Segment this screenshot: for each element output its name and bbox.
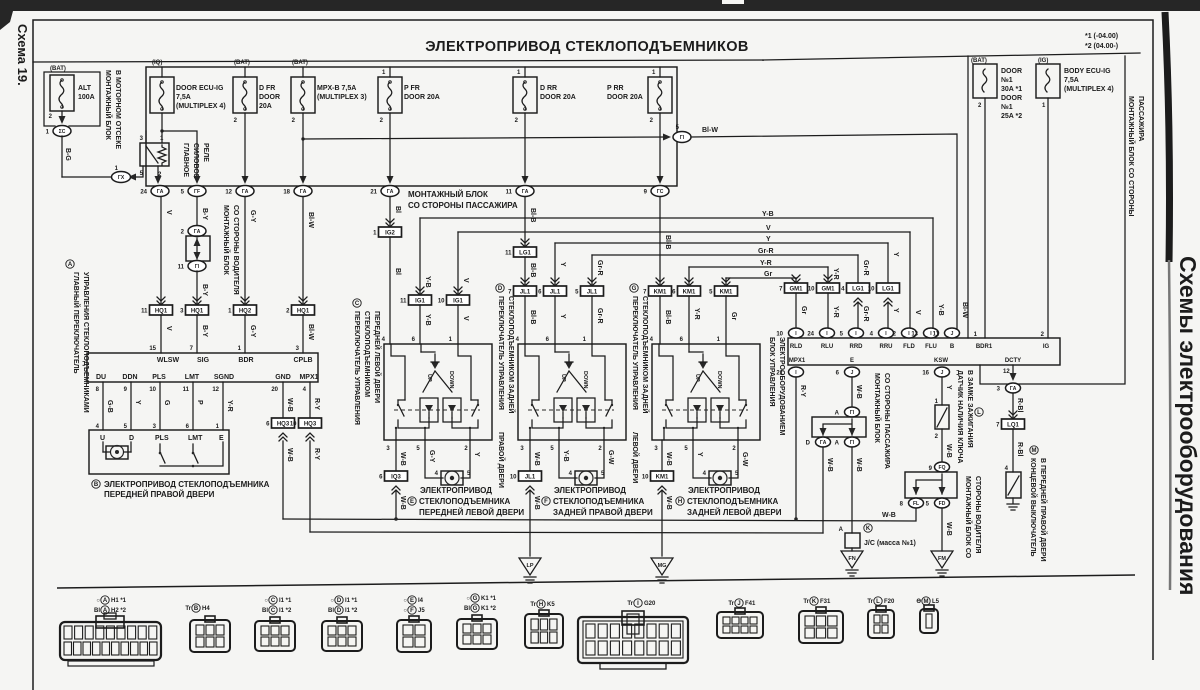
connector 8 FL xyxy=(909,498,924,508)
svg-text:U: U xyxy=(100,435,105,442)
svg-text:Y-B: Y-B xyxy=(424,314,431,326)
svg-text:FLD: FLD xyxy=(903,344,915,350)
svg-text:В ЗАМКЕ ЗАЖИГАНИЯ: В ЗАМКЕ ЗАЖИГАНИЯ xyxy=(966,370,973,448)
svg-text:B-G: B-G xyxy=(64,148,71,161)
wire P xyxy=(192,382,194,430)
wire D FR down xyxy=(244,113,246,180)
svg-text:Gr: Gr xyxy=(800,306,807,314)
svg-text:Y-B: Y-B xyxy=(424,276,431,288)
ground FN xyxy=(841,551,863,568)
svg-text:ПЕРЕДНЕЙ ЛЕВОЙ ДВЕРИ: ПЕРЕДНЕЙ ЛЕВОЙ ДВЕРИ xyxy=(419,508,524,517)
wire W-B from F pin3 xyxy=(529,440,531,471)
connector 4 I / pin RRU xyxy=(879,328,894,338)
svg-text:ПЕРЕДНЕЙ ЛЕВОЙ ДВЕРИ: ПЕРЕДНЕЙ ЛЕВОЙ ДВЕРИ xyxy=(373,311,382,403)
svg-text:(BAT): (BAT) xyxy=(292,60,308,66)
wire motor left xyxy=(693,440,711,478)
wire Bl-B from 11GA to 7 JL1 to F unit xyxy=(524,197,526,248)
svg-text:(MULTIPLEX 4): (MULTIPLEX 4) xyxy=(176,103,226,110)
caption B электропривод стеклоподъемника передней правой двери xyxy=(92,480,100,488)
svg-text:Tr: Tr xyxy=(803,599,809,605)
svg-text:KM1: KM1 xyxy=(683,290,696,296)
svg-text:МОНТАЖНЫЙ БЛОК СО СТОРОНЫ: МОНТАЖНЫЙ БЛОК СО СТОРОНЫ xyxy=(1127,96,1136,217)
svg-text:A: A xyxy=(68,262,73,268)
svg-text:Gr: Gr xyxy=(764,271,772,278)
wire V to WLSW xyxy=(160,315,162,353)
svg-text:W-B: W-B xyxy=(665,452,672,466)
svg-text:P: P xyxy=(196,400,203,405)
svg-text:100A: 100A xyxy=(78,94,95,101)
svg-text:(BAT): (BAT) xyxy=(234,60,250,66)
wire rail Gr xyxy=(726,277,796,279)
switch assembly F box xyxy=(518,344,626,440)
rocker UP/DOWN E xyxy=(423,371,452,392)
svg-text:Bl-W: Bl-W xyxy=(307,324,314,340)
wire Gr drop to 5 KM1 xyxy=(725,278,727,287)
svg-text:СТЕКЛОПОДЪЕМНИКОМ ЗАДНЕЙ: СТЕКЛОПОДЪЕМНИКОМ ЗАДНЕЙ xyxy=(507,296,516,413)
connector 10 HQ3 xyxy=(299,418,322,428)
wire W-B from FD to FM ground xyxy=(941,508,943,551)
svg-text:MPX1: MPX1 xyxy=(789,358,806,364)
svg-text:E: E xyxy=(410,499,414,505)
svg-text:M: M xyxy=(1032,448,1037,454)
svg-text:СО СТОРОНЫ ПАССАЖИРА: СО СТОРОНЫ ПАССАЖИРА xyxy=(883,373,890,469)
svg-text:Bl: Bl xyxy=(262,608,268,614)
svg-text:V: V xyxy=(462,278,469,283)
svg-text:B-Y: B-Y xyxy=(201,208,208,220)
svg-text:E: E xyxy=(410,598,414,604)
connector 2 HQ1 xyxy=(299,297,307,301)
svg-text:СИЛОВОЕ: СИЛОВОЕ xyxy=(192,143,199,179)
svg-text:ΓC: ΓC xyxy=(657,189,664,195)
svg-text:DOOR ECU-IG: DOOR ECU-IG xyxy=(176,85,224,92)
svg-text:D: D xyxy=(337,608,342,614)
svg-text:MG: MG xyxy=(658,563,667,569)
svg-text:20A: 20A xyxy=(259,103,272,110)
bus connectors row xyxy=(151,186,169,197)
wire BODY fuse to IG xyxy=(1047,98,1049,338)
svg-text:24: 24 xyxy=(807,332,814,338)
svg-text:F31: F31 xyxy=(820,599,831,605)
wire G-B xyxy=(102,382,104,430)
wire Bl-W xyxy=(302,197,304,306)
svg-text:A: A xyxy=(103,598,108,604)
inner wiring H xyxy=(666,399,746,401)
svg-text:E: E xyxy=(850,358,854,364)
svg-text:W-B: W-B xyxy=(945,444,952,458)
svg-text:HQ1: HQ1 xyxy=(297,309,310,315)
svg-text:21: 21 xyxy=(776,371,783,377)
svg-text:Tr: Tr xyxy=(627,601,633,607)
svg-text:L: L xyxy=(876,599,880,605)
svg-text:K5: K5 xyxy=(547,602,555,608)
svg-text:Bl-B: Bl-B xyxy=(529,310,536,324)
connector 2 I / pin FLD xyxy=(902,328,917,338)
svg-text:J: J xyxy=(951,331,954,337)
switch assembly H box xyxy=(652,344,760,440)
svg-text:Bl-W: Bl-W xyxy=(702,127,718,134)
node GX xyxy=(112,172,131,183)
wire pins into E xyxy=(391,344,405,400)
svg-text:РЕЛЕ: РЕЛЕ xyxy=(202,143,209,162)
svg-text:ЗАДНЕЙ ПРАВОЙ ДВЕРИ: ЗАДНЕЙ ПРАВОЙ ДВЕРИ xyxy=(553,508,653,517)
svg-text:A: A xyxy=(835,411,840,417)
wire G xyxy=(159,382,161,430)
mech link dashed E xyxy=(394,409,480,411)
svg-text:D: D xyxy=(337,598,342,604)
svg-text:Y: Y xyxy=(559,262,566,267)
passenger junction block pass box xyxy=(845,407,860,417)
svg-text:V: V xyxy=(766,225,771,232)
connector 24 I / pin RLU xyxy=(820,328,835,338)
svg-text:HQ3: HQ3 xyxy=(277,422,290,428)
svg-text:DOOR: DOOR xyxy=(1001,68,1022,75)
label C переключатель передней левой двери xyxy=(353,299,361,307)
svg-text:ΓA: ΓA xyxy=(242,189,249,195)
svg-text:MPX-B 7,5A: MPX-B 7,5A xyxy=(317,85,356,92)
wire Y-R xyxy=(222,382,224,430)
mech link dashed H xyxy=(662,409,748,411)
svg-text:Y: Y xyxy=(766,236,771,243)
svg-text:BDR1: BDR1 xyxy=(976,344,993,350)
svg-text:○: ○ xyxy=(403,598,407,604)
svg-text:Y: Y xyxy=(892,252,899,257)
connector 21 I (MPX1) xyxy=(789,367,804,377)
driver block pass box xyxy=(186,236,210,261)
svg-text:11: 11 xyxy=(141,309,148,315)
svg-text:○: ○ xyxy=(330,598,334,604)
svg-text:SIG: SIG xyxy=(197,357,210,364)
connector A GI xyxy=(845,437,860,447)
svg-text:LMT: LMT xyxy=(185,374,200,381)
svg-text:ПАССАЖИРА: ПАССАЖИРА xyxy=(1137,96,1144,141)
svg-text:G-B: G-B xyxy=(106,400,113,413)
rocker UP/DOWN F xyxy=(557,371,586,392)
svg-text:Gr-R: Gr-R xyxy=(862,306,869,322)
svg-text:Y-R: Y-R xyxy=(832,268,839,280)
svg-text:Bl: Bl xyxy=(394,268,401,275)
diode top H xyxy=(699,362,707,369)
connector 11 J / pin B xyxy=(945,328,960,338)
wire rail V xyxy=(458,231,910,233)
svg-text:G: G xyxy=(473,596,478,602)
svg-text:Y-B: Y-B xyxy=(562,450,569,462)
svg-text:ΓA: ΓA xyxy=(820,440,827,446)
svg-text:Bl: Bl xyxy=(394,206,401,213)
right junction block border xyxy=(967,56,969,338)
svg-text:○: ○ xyxy=(466,596,470,602)
wire MPX-B down xyxy=(302,113,304,180)
ground MG xyxy=(651,558,673,575)
svg-text:СТЕКЛОПОДЪЕМНИКОМ: СТЕКЛОПОДЪЕМНИКОМ xyxy=(363,311,370,397)
svg-text:(MULTIPLEX 3): (MULTIPLEX 3) xyxy=(317,94,367,101)
svg-text:10: 10 xyxy=(438,299,445,305)
side switches F xyxy=(532,400,538,416)
relay ГЛАВНОЕ СИЛОВОЕ РЕЛЕ xyxy=(140,143,169,166)
svg-text:B-Y: B-Y xyxy=(201,325,208,337)
wire W-B from D GA to lower bus xyxy=(822,447,824,533)
svg-text:HQ1: HQ1 xyxy=(155,309,168,315)
svg-text:C: C xyxy=(271,598,276,604)
svg-text:DOOR: DOOR xyxy=(1001,95,1022,102)
svg-text:H: H xyxy=(539,602,543,608)
svg-text:БЛОК УПРАВЛЕНИЯ: БЛОК УПРАВЛЕНИЯ xyxy=(768,337,775,407)
svg-text:G: G xyxy=(473,606,478,612)
ground FM xyxy=(931,551,953,568)
svg-text:ЭЛЕКТРОПРИВОД СТЕКЛОПОДЪЕМНИКА: ЭЛЕКТРОПРИВОД СТЕКЛОПОДЪЕМНИКА xyxy=(104,480,270,489)
svg-text:J5: J5 xyxy=(418,608,425,614)
svg-text:Схема 19.: Схема 19. xyxy=(15,24,30,86)
svg-text:DOWN: DOWN xyxy=(716,371,722,388)
svg-text:K: K xyxy=(812,599,817,605)
wire Gr-R drop to 5 JL1 xyxy=(591,255,593,287)
wire Y-B drop to 11 IG1 xyxy=(419,218,421,296)
wire R-Y bus lower xyxy=(310,532,823,533)
svg-text:HQ1: HQ1 xyxy=(191,309,204,315)
wire Y-B bend to FLU xyxy=(932,218,934,330)
svg-text:30A *1: 30A *1 xyxy=(1001,86,1022,93)
svg-text:W-B: W-B xyxy=(945,522,952,536)
svg-text:J: J xyxy=(737,601,740,607)
svg-text:D: D xyxy=(129,435,134,442)
svg-text:I1 *1: I1 *1 xyxy=(279,598,292,604)
svg-text:Gr-R: Gr-R xyxy=(862,260,869,276)
svg-text:W-B: W-B xyxy=(665,496,672,510)
svg-text:IG2: IG2 xyxy=(385,231,395,237)
svg-text:ДАТЧИК НАЛИЧИЯ КЛЮЧА: ДАТЧИК НАЛИЧИЯ КЛЮЧА xyxy=(956,370,963,464)
svg-text:24: 24 xyxy=(140,190,147,196)
wire R-Bl xyxy=(1012,393,1014,420)
svg-text:R-Bl: R-Bl xyxy=(1016,442,1023,456)
connector 5 GI (Bl-W) xyxy=(673,132,691,143)
svg-text:MPX1: MPX1 xyxy=(299,374,318,381)
svg-text:G-Y: G-Y xyxy=(249,325,256,338)
svg-text:Bl-W: Bl-W xyxy=(307,212,314,228)
svg-text:H: H xyxy=(678,499,682,505)
svg-text:(MULTIPLEX 4): (MULTIPLEX 4) xyxy=(1064,86,1114,93)
svg-text:○: ○ xyxy=(264,598,268,604)
svg-text:7,5A: 7,5A xyxy=(1064,77,1079,84)
connector 5 FD xyxy=(935,498,950,508)
wire motor left xyxy=(425,440,443,478)
connector 11 HQ1 xyxy=(157,297,165,301)
svg-text:ПЕРЕКЛЮЧАТЕЛЬ УПРАВЛЕНИЯ: ПЕРЕКЛЮЧАТЕЛЬ УПРАВЛЕНИЯ xyxy=(631,296,638,410)
svg-text:УПРАВЛЕНИЯ СТЕКЛОПОДЪЕМНИКАМИ: УПРАВЛЕНИЯ СТЕКЛОПОДЪЕМНИКАМИ xyxy=(82,272,89,413)
svg-text:11: 11 xyxy=(183,387,190,393)
svg-text:Y: Y xyxy=(696,452,703,457)
svg-text:B-Y: B-Y xyxy=(201,284,208,296)
svg-text:W-B: W-B xyxy=(855,458,862,472)
svg-text:ГЛАВНОЕ: ГЛАВНОЕ xyxy=(182,143,189,177)
wire Y drop to 6 JL1 xyxy=(554,243,556,287)
svg-text:МОНТАЖНЫЙ БЛОК СО: МОНТАЖНЫЙ БЛОК СО xyxy=(964,476,973,559)
svg-text:ΓІ: ΓІ xyxy=(680,135,685,141)
svg-text:Y-R: Y-R xyxy=(693,308,700,320)
svg-text:G-W: G-W xyxy=(741,452,748,467)
svg-text:RRD: RRD xyxy=(850,344,864,350)
svg-text:ΓA: ΓA xyxy=(522,189,529,195)
wire V xyxy=(160,197,162,306)
wire R-Y from MPX1 to lower bus xyxy=(795,377,797,519)
svg-text:10: 10 xyxy=(149,387,156,393)
svg-text:10: 10 xyxy=(642,475,649,481)
svg-text:ΓA: ΓA xyxy=(387,189,394,195)
svg-text:D: D xyxy=(806,441,811,447)
contact cells H xyxy=(688,398,706,422)
label ГЛАВНЫЙ ПЕРЕКЛЮЧАТЕЛЬ УПРАВЛЕНИЯ СТЕКЛОПОДЪЕМНИКАМИ xyxy=(66,260,74,268)
svg-text:G-W: G-W xyxy=(607,450,614,465)
switch LMT xyxy=(193,444,198,463)
svg-text:J: J xyxy=(941,370,944,376)
svg-text:UP: UP xyxy=(694,374,700,382)
svg-text:IG1: IG1 xyxy=(415,299,425,305)
connector 1 HQ2 xyxy=(241,297,249,301)
svg-text:СТЕКЛОПОДЪЕМНИКА: СТЕКЛОПОДЪЕМНИКА xyxy=(553,497,644,506)
page edge black stripe right xyxy=(1165,12,1170,262)
svg-text:GM1: GM1 xyxy=(789,287,803,293)
svg-text:21: 21 xyxy=(370,190,377,196)
wire rail Y xyxy=(555,242,888,244)
svg-text:RLU: RLU xyxy=(821,344,833,350)
side switches H xyxy=(666,400,672,416)
svg-text:B: B xyxy=(194,606,199,612)
svg-text:ЭЛЕКТРОПРИВОД СТЕКЛОПОДЪЕМНИКО: ЭЛЕКТРОПРИВОД СТЕКЛОПОДЪЕМНИКОВ xyxy=(425,39,749,55)
control unit box xyxy=(788,338,1060,365)
diode top F xyxy=(565,362,573,369)
svg-text:Bl-B: Bl-B xyxy=(529,263,536,277)
svg-text:H4: H4 xyxy=(202,606,210,612)
bus arrows into ovals xyxy=(155,176,162,184)
wire B-G xyxy=(61,136,63,177)
svg-text:18: 18 xyxy=(283,190,290,196)
wire relay pin5 to GX xyxy=(136,166,143,177)
svg-text:GM1: GM1 xyxy=(821,287,835,293)
svg-text:I1 *1: I1 *1 xyxy=(345,598,358,604)
connector 11 GI xyxy=(188,261,206,272)
wire W-B from H pin3 xyxy=(661,440,663,471)
svg-text:IG: IG xyxy=(1043,344,1050,350)
connector 1 SC xyxy=(53,126,71,137)
svg-text:J/C (масса №1): J/C (масса №1) xyxy=(864,539,916,547)
svg-text:LG1: LG1 xyxy=(519,251,531,257)
svg-text:FN: FN xyxy=(848,556,855,562)
svg-text:Tr: Tr xyxy=(530,602,536,608)
svg-text:ЭЛЕКТРООБОРУДОВАНИЕМ: ЭЛЕКТРООБОРУДОВАНИЕМ xyxy=(778,337,785,435)
wire fuse1 to relay and 5GF xyxy=(161,113,163,143)
svg-text:МОНТАЖНЫЙ БЛОК: МОНТАЖНЫЙ БЛОК xyxy=(408,190,488,199)
wire Gr bend to 7 GM1 xyxy=(795,278,797,284)
svg-text:(IQ): (IQ) xyxy=(152,60,162,66)
wire W-B from E pin3 xyxy=(395,440,397,471)
ground symbol xyxy=(1007,498,1019,510)
wire B-Y xyxy=(196,197,198,226)
svg-text:Bl: Bl xyxy=(464,606,470,612)
svg-text:F: F xyxy=(544,499,548,505)
svg-text:HQ2: HQ2 xyxy=(239,309,252,315)
wire V drop to 10 IG1 xyxy=(457,232,459,296)
wire D RR down xyxy=(524,113,526,180)
svg-text:Y-B: Y-B xyxy=(762,211,774,218)
diode top E xyxy=(431,362,439,369)
wire motor right xyxy=(729,440,738,478)
motor M xyxy=(575,471,597,485)
svg-text:11: 11 xyxy=(933,332,940,338)
svg-text:Bl-B: Bl-B xyxy=(529,208,536,222)
wire Bl-B from 9GC to 7 KM1 to H unit xyxy=(659,197,661,287)
svg-text:ЭЛЕКТРОПРИВОД: ЭЛЕКТРОПРИВОД xyxy=(688,486,760,495)
label G переключатель задней левой двери xyxy=(630,284,638,292)
svg-text:Gr-R: Gr-R xyxy=(596,260,603,276)
svg-text:FQ: FQ xyxy=(939,465,946,471)
motor M xyxy=(441,471,463,485)
motor M xyxy=(709,471,731,485)
svg-text:D FR: D FR xyxy=(259,85,275,92)
svg-text:J: J xyxy=(851,370,854,376)
svg-text:F20: F20 xyxy=(884,599,895,605)
svg-text:G: G xyxy=(163,400,170,406)
wire W-B from E pin xyxy=(851,377,853,407)
svg-text:ΓF: ΓF xyxy=(194,189,200,195)
svg-text:W-B: W-B xyxy=(399,452,406,466)
svg-text:№1: №1 xyxy=(1001,103,1013,111)
svg-text:CPLB: CPLB xyxy=(293,357,312,364)
mech link dashed F xyxy=(528,409,614,411)
wire MPX-B branch to GI (Bl-W feed) xyxy=(303,137,668,139)
svg-text:Y-B: Y-B xyxy=(937,304,944,316)
svg-text:Y-R: Y-R xyxy=(226,400,233,412)
svg-text:HQ3: HQ3 xyxy=(304,422,317,428)
svg-text:DOOR: DOOR xyxy=(259,94,280,101)
svg-text:ΓΙ: ΓΙ xyxy=(850,410,855,416)
svg-text:LG1: LG1 xyxy=(852,287,864,293)
svg-text:ΓA: ΓA xyxy=(1010,386,1017,392)
wire G-Y xyxy=(244,197,246,306)
svg-text:Gr-R: Gr-R xyxy=(758,248,774,255)
wire Y from KSW xyxy=(941,377,943,405)
svg-text:D: D xyxy=(498,286,503,292)
svg-text:Y-R: Y-R xyxy=(832,306,839,318)
svg-text:СТЕКЛОПОДЪЕМНИКОМ ЗАДНЕЙ: СТЕКЛОПОДЪЕМНИКОМ ЗАДНЕЙ xyxy=(641,296,650,413)
svg-text:V: V xyxy=(914,310,921,315)
svg-text:W-B: W-B xyxy=(533,452,540,466)
svg-text:Y: Y xyxy=(134,400,141,405)
connector 2 GA xyxy=(188,226,206,237)
svg-text:25A *2: 25A *2 xyxy=(1001,113,1022,120)
svg-text:F: F xyxy=(410,608,414,614)
wire motor left xyxy=(559,440,577,478)
svg-text:JL1: JL1 xyxy=(587,290,598,296)
svg-text:10: 10 xyxy=(510,475,517,481)
wire rail Y-B xyxy=(420,217,933,219)
svg-text:I4: I4 xyxy=(418,598,424,604)
svg-text:W-B: W-B xyxy=(882,512,896,519)
svg-text:ΓΙ: ΓΙ xyxy=(195,264,200,270)
svg-text:LP: LP xyxy=(526,563,533,569)
svg-text:W-B: W-B xyxy=(855,385,862,399)
svg-text:Y: Y xyxy=(559,314,566,319)
svg-text:Tr: Tr xyxy=(185,606,191,612)
svg-text:I1 *2: I1 *2 xyxy=(345,608,358,614)
inner wiring E xyxy=(398,399,478,401)
svg-text:Bl-B: Bl-B xyxy=(664,310,671,324)
svg-text:12: 12 xyxy=(225,190,232,196)
svg-text:*2 (04.00-): *2 (04.00-) xyxy=(1085,43,1118,50)
svg-text:K1 *2: K1 *2 xyxy=(481,606,497,612)
svg-text:11: 11 xyxy=(506,190,513,196)
svg-text:KSW: KSW xyxy=(934,358,948,364)
engine junction block box xyxy=(44,72,100,126)
svg-text:ГЛАВНЫЙ ПЕРЕКЛЮЧАТЕЛЬ: ГЛАВНЫЙ ПЕРЕКЛЮЧАТЕЛЬ xyxy=(72,272,81,374)
svg-text:ЭЛЕКТРОПРИВОД: ЭЛЕКТРОПРИВОД xyxy=(554,486,626,495)
